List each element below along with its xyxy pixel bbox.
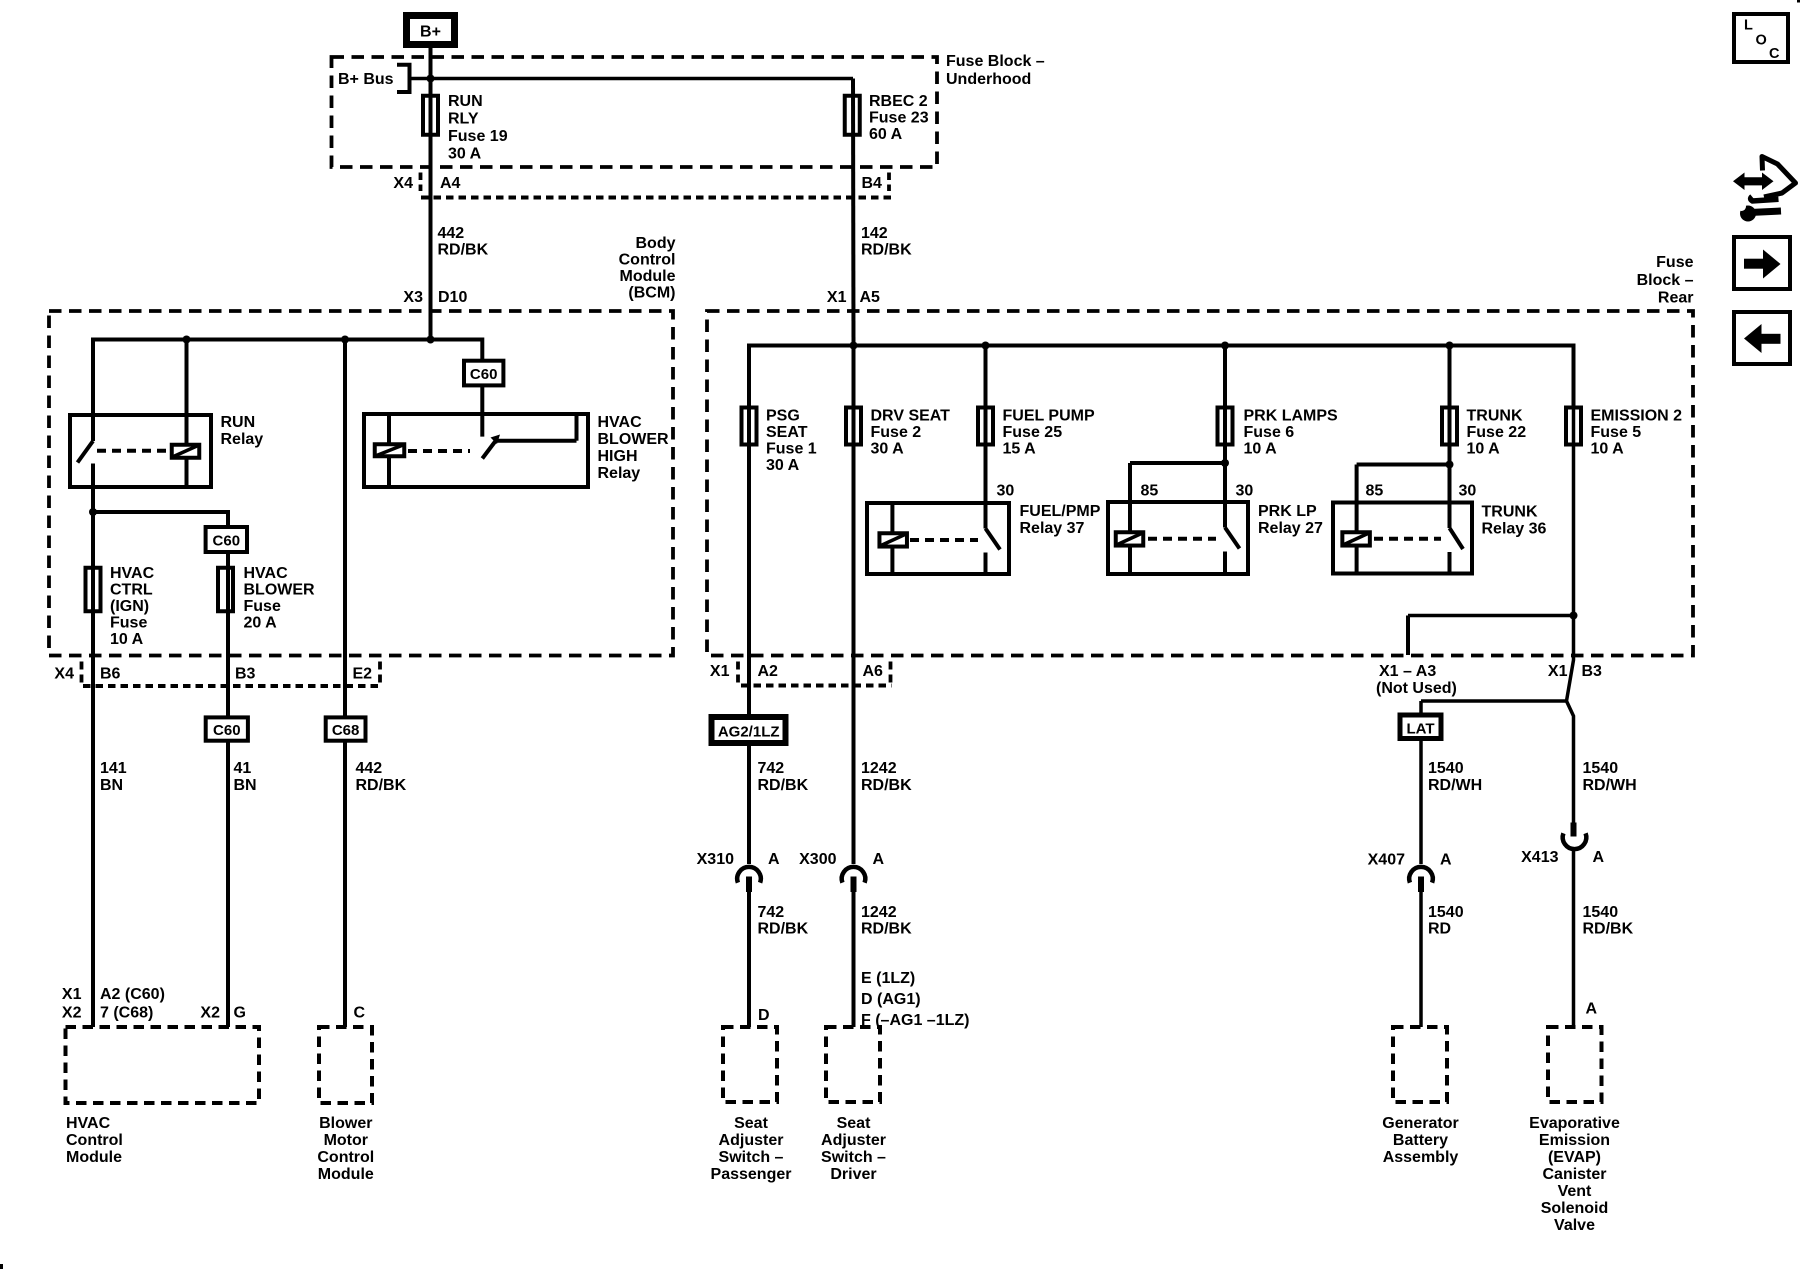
label X1 - A3 (Not Used) (1376, 663, 1457, 697)
svg-text:X407: X407 (1368, 852, 1405, 869)
svg-text:742: 742 (758, 904, 785, 921)
svg-text:RD/BK: RD/BK (356, 777, 407, 794)
svg-text:X413: X413 (1521, 849, 1558, 866)
wire 1540 RD to generator (1419, 892, 1423, 1027)
svg-text:20 A: 20 A (244, 615, 278, 632)
svg-text:Underhood: Underhood (946, 71, 1031, 88)
svg-text:85: 85 (1366, 483, 1384, 500)
page mark bottom left (0, 1264, 3, 1269)
svg-text:Blower: Blower (319, 1115, 372, 1132)
svg-text:30 A: 30 A (448, 146, 482, 163)
svg-text:Fuse: Fuse (244, 598, 281, 615)
svg-text:SEAT: SEAT (766, 424, 808, 441)
svg-text:Canister: Canister (1542, 1166, 1606, 1183)
BCM dashed box (49, 311, 673, 656)
wire PRK LAMPS vertical (1223, 346, 1227, 528)
svg-text:1540: 1540 (1428, 904, 1464, 921)
arrow box left (1734, 312, 1790, 364)
svg-text:442: 442 (356, 760, 383, 777)
svg-text:60 A: 60 A (869, 126, 903, 143)
svg-text:(EVAP): (EVAP) (1548, 1149, 1601, 1166)
pin labels X1 A5 (827, 289, 880, 306)
label Fuse Block - Rear (1637, 254, 1694, 307)
wire 1242 lower to driver switch (852, 892, 856, 1027)
label Body Control Module (BCM) (619, 235, 676, 302)
svg-text:Adjuster: Adjuster (719, 1132, 784, 1149)
svg-text:Fuse 23: Fuse 23 (869, 110, 929, 127)
svg-text:RLY: RLY (448, 111, 479, 128)
page mark top right (1797, 0, 1800, 3)
connector row rear X1 A2 A6 (710, 662, 892, 686)
svg-text:HVAC: HVAC (66, 1115, 111, 1132)
wire label 1242 RD/BK lower (861, 904, 912, 938)
svg-text:RD/BK: RD/BK (861, 777, 912, 794)
node rear bus fuel pump (982, 342, 990, 350)
svg-text:HIGH: HIGH (598, 448, 638, 465)
pin labels X2 G (200, 1005, 246, 1022)
wire label 1242 RD/BK upper (861, 760, 912, 794)
svg-text:PRK LP: PRK LP (1258, 503, 1317, 520)
svg-text:C60: C60 (470, 366, 498, 383)
wire BCM bus (93, 340, 482, 442)
svg-text:Evaporative: Evaporative (1529, 1115, 1620, 1132)
wire label 742 RD/BK upper (758, 760, 809, 794)
svg-text:1540: 1540 (1428, 760, 1464, 777)
svg-text:30 A: 30 A (766, 457, 800, 474)
wire B+ vertical to BCM bus (429, 48, 433, 340)
svg-text:Seat: Seat (734, 1115, 768, 1132)
svg-text:RD/BK: RD/BK (438, 242, 489, 259)
svg-text:A6: A6 (863, 663, 884, 680)
node B6 branch junction (89, 508, 97, 516)
svg-text:LAT: LAT (1406, 721, 1434, 738)
wire 742 lower to passenger switch (747, 892, 751, 1027)
svg-text:Assembly: Assembly (1383, 1149, 1459, 1166)
wire label 442 RD/BK (438, 225, 489, 259)
svg-text:E2: E2 (353, 666, 373, 683)
svg-text:141: 141 (100, 760, 127, 777)
fuse TRUNK Fuse 22 10 A (1442, 408, 1526, 458)
fuse block rear dashed box (707, 311, 1693, 656)
svg-text:B3: B3 (235, 666, 256, 683)
svg-text:Fuse 19: Fuse 19 (448, 128, 508, 145)
svg-text:Relay: Relay (221, 431, 264, 448)
arrow box right (1734, 237, 1790, 289)
inline connector X413 (1521, 823, 1604, 867)
svg-text:A: A (1586, 1001, 1598, 1018)
svg-text:X1: X1 (1548, 663, 1568, 680)
label Fuse Block - Underhood (946, 53, 1045, 88)
svg-text:G: G (234, 1005, 246, 1022)
connector C60 on B3 wire (206, 527, 247, 552)
wire bus horizontal underhood (410, 77, 854, 81)
svg-text:RD/WH: RD/WH (1428, 777, 1482, 794)
wire label 1540 RD/WH left (1428, 760, 1482, 794)
svg-text:Control: Control (619, 252, 676, 269)
B+ Bus bar symbol and label (338, 65, 410, 92)
inline connector X300 (799, 851, 884, 892)
svg-text:RD/BK: RD/BK (1583, 921, 1634, 938)
svg-text:Relay 37: Relay 37 (1020, 520, 1085, 537)
svg-text:142: 142 (861, 225, 888, 242)
svg-text:Switch –: Switch – (821, 1149, 886, 1166)
svg-text:Generator: Generator (1382, 1115, 1458, 1132)
svg-text:RD/BK: RD/BK (861, 921, 912, 938)
svg-text:1540: 1540 (1583, 760, 1619, 777)
wire RBEC vertical (851, 79, 856, 346)
inline connector X310 (697, 851, 780, 892)
svg-text:BLOWER: BLOWER (598, 431, 670, 448)
svg-text:RD/BK: RD/BK (758, 777, 809, 794)
svg-text:10 A: 10 A (110, 631, 144, 648)
svg-text:30: 30 (997, 483, 1015, 500)
svg-text:Rear: Rear (1658, 290, 1694, 307)
svg-text:Solenoid: Solenoid (1541, 1200, 1609, 1217)
svg-text:(Not Used): (Not Used) (1376, 680, 1457, 697)
svg-text:RD/BK: RD/BK (861, 242, 912, 259)
svg-text:A4: A4 (440, 175, 461, 192)
svg-text:A: A (873, 851, 885, 868)
relay HVAC BLOWER HIGH Relay (364, 414, 669, 487)
Seat Adjuster Switch Passenger box (711, 1027, 792, 1183)
svg-text:FUEL PUMP: FUEL PUMP (1003, 408, 1095, 425)
svg-text:RD/BK: RD/BK (758, 921, 809, 938)
svg-text:Fuse Block –: Fuse Block – (946, 53, 1045, 70)
svg-text:1540: 1540 (1583, 904, 1619, 921)
svg-text:EMISSION 2: EMISSION 2 (1591, 408, 1683, 425)
pin labels E D F driver (861, 970, 969, 1029)
svg-text:X4: X4 (393, 175, 413, 192)
svg-text:A: A (1593, 849, 1605, 866)
fuse FUEL PUMP Fuse 25 15 A (978, 408, 1095, 458)
svg-text:RD: RD (1428, 921, 1451, 938)
svg-text:7 (C68): 7 (C68) (100, 1005, 153, 1022)
fuse RBEC 2 Fuse 23 60 A (845, 93, 929, 143)
svg-text:Vent: Vent (1558, 1183, 1592, 1200)
svg-text:30: 30 (1459, 483, 1477, 500)
node rear bus trunk (1446, 342, 1454, 350)
svg-text:10 A: 10 A (1467, 441, 1501, 458)
svg-text:B4: B4 (862, 175, 883, 192)
wire label 141 BN (100, 760, 127, 794)
svg-text:Driver: Driver (830, 1166, 876, 1183)
connector C68 (326, 717, 366, 740)
svg-text:Fuse 22: Fuse 22 (1467, 424, 1527, 441)
svg-text:Module: Module (66, 1149, 122, 1166)
svg-text:B3: B3 (1582, 663, 1603, 680)
svg-text:Fuse 2: Fuse 2 (871, 424, 922, 441)
connector C60 lower (206, 717, 248, 740)
wire label 1540 RD/BK (1583, 904, 1634, 938)
svg-text:15 A: 15 A (1003, 441, 1037, 458)
wire TRUNK vertical (1448, 346, 1452, 529)
svg-text:10 A: 10 A (1244, 441, 1278, 458)
connector AG2/1LZ (712, 717, 786, 743)
svg-text:Block –: Block – (1637, 272, 1694, 289)
wire label 442 RD/BK lower (356, 760, 407, 794)
svg-text:(BCM): (BCM) (628, 285, 675, 302)
wire label 142 RD/BK (861, 225, 912, 259)
node bus coil branch (183, 336, 191, 344)
fuse DRV SEAT Fuse 2 30 A (846, 408, 950, 458)
connector row X4 B6 B3 E2 (54, 662, 381, 687)
svg-text:Seat: Seat (837, 1115, 871, 1132)
svg-text:Control: Control (317, 1149, 374, 1166)
svg-text:442: 442 (438, 225, 465, 242)
wire label 41 BN (234, 760, 257, 794)
wire label 1540 RD (1428, 904, 1464, 938)
wire 1540 RD/BK to EVAP (1572, 848, 1576, 1027)
svg-text:RD/WH: RD/WH (1583, 777, 1637, 794)
wire label 742 RD/BK lower (758, 904, 809, 938)
svg-text:HVAC: HVAC (110, 565, 155, 582)
wire LAT branch horizontal (1421, 699, 1567, 703)
Evaporative Emission EVAP Canister Vent Solenoid Valve box (1529, 1027, 1620, 1234)
wire FUEL PUMP vertical (984, 346, 988, 529)
svg-text:RBEC 2: RBEC 2 (869, 93, 928, 110)
fuse block underhood dashed box (332, 57, 938, 167)
svg-text:X1 – A3: X1 – A3 (1379, 663, 1436, 680)
svg-text:DRV SEAT: DRV SEAT (871, 408, 951, 425)
svg-text:X300: X300 (799, 851, 836, 868)
connector C60 inside BCM on blower wire (464, 361, 503, 386)
inline connector X407 (1368, 852, 1452, 893)
svg-text:RUN: RUN (221, 414, 256, 431)
svg-text:Fuse 5: Fuse 5 (1591, 424, 1642, 441)
fuse EMISSION 2 Fuse 5 10 A (1566, 408, 1682, 458)
wire X1-A3 not used branch (1408, 616, 1574, 656)
node rear bus A5 (850, 342, 858, 350)
fuse RUN RLY Fuse 19 30 A (423, 93, 508, 163)
svg-text:TRUNK: TRUNK (1482, 504, 1538, 521)
svg-text:HVAC: HVAC (244, 565, 289, 582)
routing scribble icon (1733, 157, 1796, 222)
svg-text:10 A: 10 A (1591, 441, 1625, 458)
svg-text:Battery: Battery (1393, 1132, 1448, 1149)
svg-text:D (AG1): D (AG1) (861, 991, 921, 1008)
svg-text:X1: X1 (710, 663, 730, 680)
svg-text:AG2/1LZ: AG2/1LZ (718, 724, 780, 741)
svg-text:Relay 27: Relay 27 (1258, 520, 1323, 537)
wire label 1540 RD/WH right (1583, 760, 1637, 794)
svg-text:D: D (758, 1007, 770, 1024)
wire EMISSION vertical with jog (1567, 346, 1574, 824)
svg-text:A5: A5 (860, 289, 881, 306)
svg-text:B6: B6 (100, 666, 121, 683)
svg-text:Control: Control (66, 1132, 123, 1149)
pin labels X1 B3 (1548, 663, 1602, 680)
svg-text:B+: B+ (420, 24, 441, 41)
svg-text:BLOWER: BLOWER (244, 582, 316, 599)
svg-text:PSG: PSG (766, 408, 800, 425)
svg-text:X310: X310 (697, 851, 734, 868)
svg-text:Fuse: Fuse (1656, 254, 1693, 271)
svg-text:RUN: RUN (448, 93, 483, 110)
connector row X4 A4 B4 (393, 173, 893, 198)
svg-text:Module: Module (318, 1166, 374, 1183)
svg-text:Relay 36: Relay 36 (1482, 521, 1547, 538)
svg-text:30: 30 (1236, 483, 1254, 500)
svg-text:Valve: Valve (1554, 1217, 1595, 1234)
svg-text:742: 742 (758, 760, 785, 777)
node bus D10 (427, 336, 435, 344)
svg-text:Motor: Motor (324, 1132, 368, 1149)
svg-text:D10: D10 (438, 289, 467, 306)
svg-text:A2 (C60): A2 (C60) (100, 986, 165, 1003)
svg-text:FUEL/PMP: FUEL/PMP (1020, 503, 1101, 520)
svg-text:(IGN): (IGN) (110, 598, 149, 615)
wire RUN switch lower / B6 vertical (91, 464, 95, 1028)
svg-text:E (1LZ): E (1LZ) (861, 970, 915, 987)
pin labels X3 D10 (403, 289, 467, 306)
node bus E2 branch (341, 336, 349, 344)
svg-text:BN: BN (234, 777, 257, 794)
pin labels X1 X2 A2 7 (62, 986, 165, 1022)
fuse HVAC CTRL (IGN) Fuse 10 A (86, 565, 155, 648)
svg-text:1242: 1242 (861, 904, 897, 921)
svg-text:41: 41 (234, 760, 252, 777)
relay FUEL/PMP Relay 37 (867, 483, 1101, 575)
fuse HVAC BLOWER Fuse 20 A (218, 565, 315, 632)
svg-text:Adjuster: Adjuster (821, 1132, 886, 1149)
wire branch to C60 B3 (93, 512, 228, 1027)
svg-text:Body: Body (636, 235, 676, 252)
svg-text:Fuse: Fuse (110, 615, 147, 632)
svg-text:C60: C60 (213, 722, 241, 739)
svg-text:Fuse 1: Fuse 1 (766, 441, 817, 458)
wire DRV SEAT vertical (852, 346, 856, 865)
LOC legend box (1734, 14, 1788, 62)
relay PRK LP Relay 27 (1108, 459, 1323, 574)
svg-text:Fuse 25: Fuse 25 (1003, 424, 1063, 441)
svg-text:C: C (354, 1005, 366, 1022)
svg-text:TRUNK: TRUNK (1467, 408, 1523, 425)
Seat Adjuster Switch Driver box (821, 1027, 886, 1183)
svg-text:X3: X3 (403, 289, 423, 306)
node emission branch junction (1570, 612, 1578, 620)
power symbol B+ (407, 16, 455, 45)
svg-text:Emission: Emission (1539, 1132, 1610, 1149)
connector LAT (1400, 715, 1441, 739)
svg-text:X1: X1 (62, 986, 82, 1003)
node junction at B+ bus (427, 75, 435, 83)
svg-text:X2: X2 (62, 1005, 82, 1022)
svg-text:1242: 1242 (861, 760, 897, 777)
svg-text:B+ Bus: B+ Bus (338, 71, 394, 88)
svg-text:Passenger: Passenger (711, 1166, 792, 1183)
relay RUN Relay (70, 414, 263, 487)
svg-text:A: A (768, 851, 780, 868)
svg-text:A: A (1440, 852, 1452, 869)
svg-text:HVAC: HVAC (598, 414, 643, 431)
svg-text:CTRL: CTRL (110, 582, 153, 599)
fuse PRK LAMPS Fuse 6 10 A (1218, 408, 1339, 458)
svg-text:PRK LAMPS: PRK LAMPS (1244, 408, 1339, 425)
svg-text:Switch –: Switch – (719, 1149, 784, 1166)
svg-text:X1: X1 (827, 289, 847, 306)
svg-text:L: L (1744, 18, 1753, 34)
svg-text:85: 85 (1141, 483, 1159, 500)
svg-text:Module: Module (620, 268, 676, 285)
wire RUN relay coil branch (185, 340, 189, 444)
svg-text:A2: A2 (758, 663, 779, 680)
wire E2 vertical (343, 340, 347, 1028)
wire PSG SEAT vertical (747, 346, 751, 865)
wire LAT vertical upper (1419, 701, 1423, 864)
Blower Motor Control Module box (317, 1027, 374, 1183)
svg-text:30 A: 30 A (871, 441, 905, 458)
svg-text:X2: X2 (200, 1005, 220, 1022)
wire rear bus (749, 346, 1574, 407)
svg-text:BN: BN (100, 777, 123, 794)
HVAC Control Module box (66, 1027, 260, 1166)
svg-text:C60: C60 (213, 533, 241, 550)
fuse PSG SEAT Fuse 1 30 A (742, 408, 817, 475)
node rear bus prk lamps (1221, 342, 1229, 350)
svg-text:Fuse 6: Fuse 6 (1244, 424, 1295, 441)
svg-text:X4: X4 (54, 666, 74, 683)
svg-text:C: C (1769, 46, 1780, 62)
svg-text:O: O (1756, 33, 1767, 49)
svg-text:C68: C68 (332, 722, 360, 739)
svg-text:Relay: Relay (598, 465, 641, 482)
Generator Battery Assembly box (1382, 1027, 1458, 1166)
relay TRUNK Relay 36 (1333, 461, 1547, 574)
